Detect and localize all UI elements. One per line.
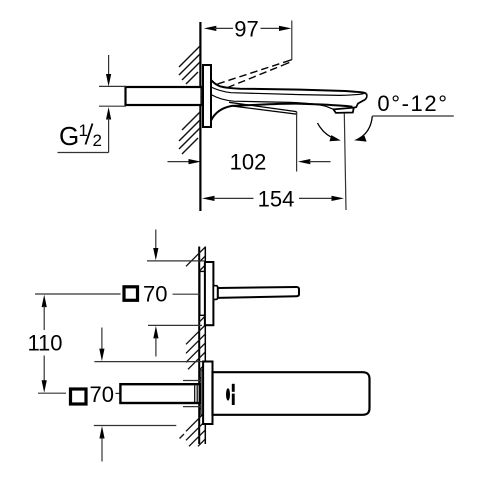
fin lower diagonal xyxy=(233,106,297,114)
svg-text:2: 2 xyxy=(93,131,102,150)
tilt arc (right branch with arrowhead) xyxy=(359,116,373,139)
pipe coupling lines xyxy=(194,386,196,403)
spout tip front face xyxy=(354,94,367,108)
svg-text:97: 97 xyxy=(234,16,258,41)
wall hatch full strokes (crossing to left of wall) xyxy=(180,247,206,446)
pipe diameter extension lines xyxy=(99,85,126,87)
svg-text:154: 154 xyxy=(258,186,295,211)
spout mounting plate xyxy=(201,370,203,415)
wall sleeve ticks xyxy=(183,380,201,382)
dimension 102 xyxy=(168,150,331,175)
blade bottom line xyxy=(211,95,334,110)
spout supply pipe (behind wall) xyxy=(120,384,199,403)
wall section lines (bottom view) xyxy=(198,247,200,445)
dimension 110 xyxy=(27,295,66,394)
svg-text:G: G xyxy=(59,121,79,151)
handle escutcheon xyxy=(205,262,214,325)
spout tip vertical reference line xyxy=(344,113,346,210)
wall hatching above flange xyxy=(179,46,200,84)
leader line to 0-12 label xyxy=(372,115,454,117)
arrow up to spout escutcheon bottom xyxy=(99,426,104,439)
spout escutcheon (front) xyxy=(203,362,212,425)
spout body (front view, rounded end) xyxy=(213,372,370,415)
wall flange (escutcheon, side view) xyxy=(203,65,211,127)
handle mounting plate (behind escutcheon) xyxy=(200,271,205,315)
extension line for 97 (raised tip) xyxy=(291,21,293,61)
aerator xyxy=(334,108,354,113)
handle escutcheon bottom extension line xyxy=(148,324,202,326)
dashed raised-position solid tip (lower) xyxy=(285,63,290,65)
arrow down to spout escutcheon top xyxy=(101,328,103,350)
svg-text:1: 1 xyxy=(79,121,88,140)
svg-text:110: 110 xyxy=(27,331,62,356)
second top line xyxy=(211,87,364,95)
handle lever bar xyxy=(218,287,299,298)
svg-text:0°-12°: 0°-12° xyxy=(377,91,448,116)
label square-70 (handle) xyxy=(35,281,200,306)
dimension 97 xyxy=(204,16,292,41)
dashed raised-position solid tip (upper) xyxy=(287,60,292,62)
svg-text:102: 102 xyxy=(230,150,267,175)
extension line for 102 (fin tip) xyxy=(296,112,298,172)
top outline xyxy=(211,80,367,94)
fin upper diagonal xyxy=(229,102,297,111)
label G 1/2 xyxy=(59,121,102,151)
tilt arc (left branch with arrowhead) xyxy=(318,123,337,139)
supply pipe G1/2 (behind wall) xyxy=(126,87,202,105)
GROHE logo on spout xyxy=(226,388,230,400)
bottom outline (sweeping curve) xyxy=(211,104,353,121)
wall hatching below flange xyxy=(179,112,200,154)
spout escutcheon bottom extension line xyxy=(94,425,177,427)
pipe diameter arrow (top, pointing down) xyxy=(108,55,110,75)
pipe coupling between wall and flange xyxy=(201,88,203,105)
pipe diameter arrow (bottom, pointing up) = G1/2 leader xyxy=(106,107,111,120)
handle lever base xyxy=(213,286,217,300)
dimension 154 xyxy=(202,186,344,211)
svg-text:70: 70 xyxy=(89,382,113,407)
arrow up to escutcheon bottom xyxy=(153,326,158,339)
svg-text:70: 70 xyxy=(143,281,167,306)
label square-70 (spout) xyxy=(71,382,121,407)
wall line (top view) xyxy=(199,22,201,211)
handle escutcheon top extension line xyxy=(147,260,205,262)
arrow down to escutcheon top xyxy=(155,230,157,250)
dashed raised-position line (lower) xyxy=(228,65,285,88)
spout escutcheon top extension line xyxy=(94,361,203,363)
wall hatching (bottom view, strip chevrons) xyxy=(199,256,206,409)
dashed raised-position line (upper) xyxy=(218,61,288,84)
